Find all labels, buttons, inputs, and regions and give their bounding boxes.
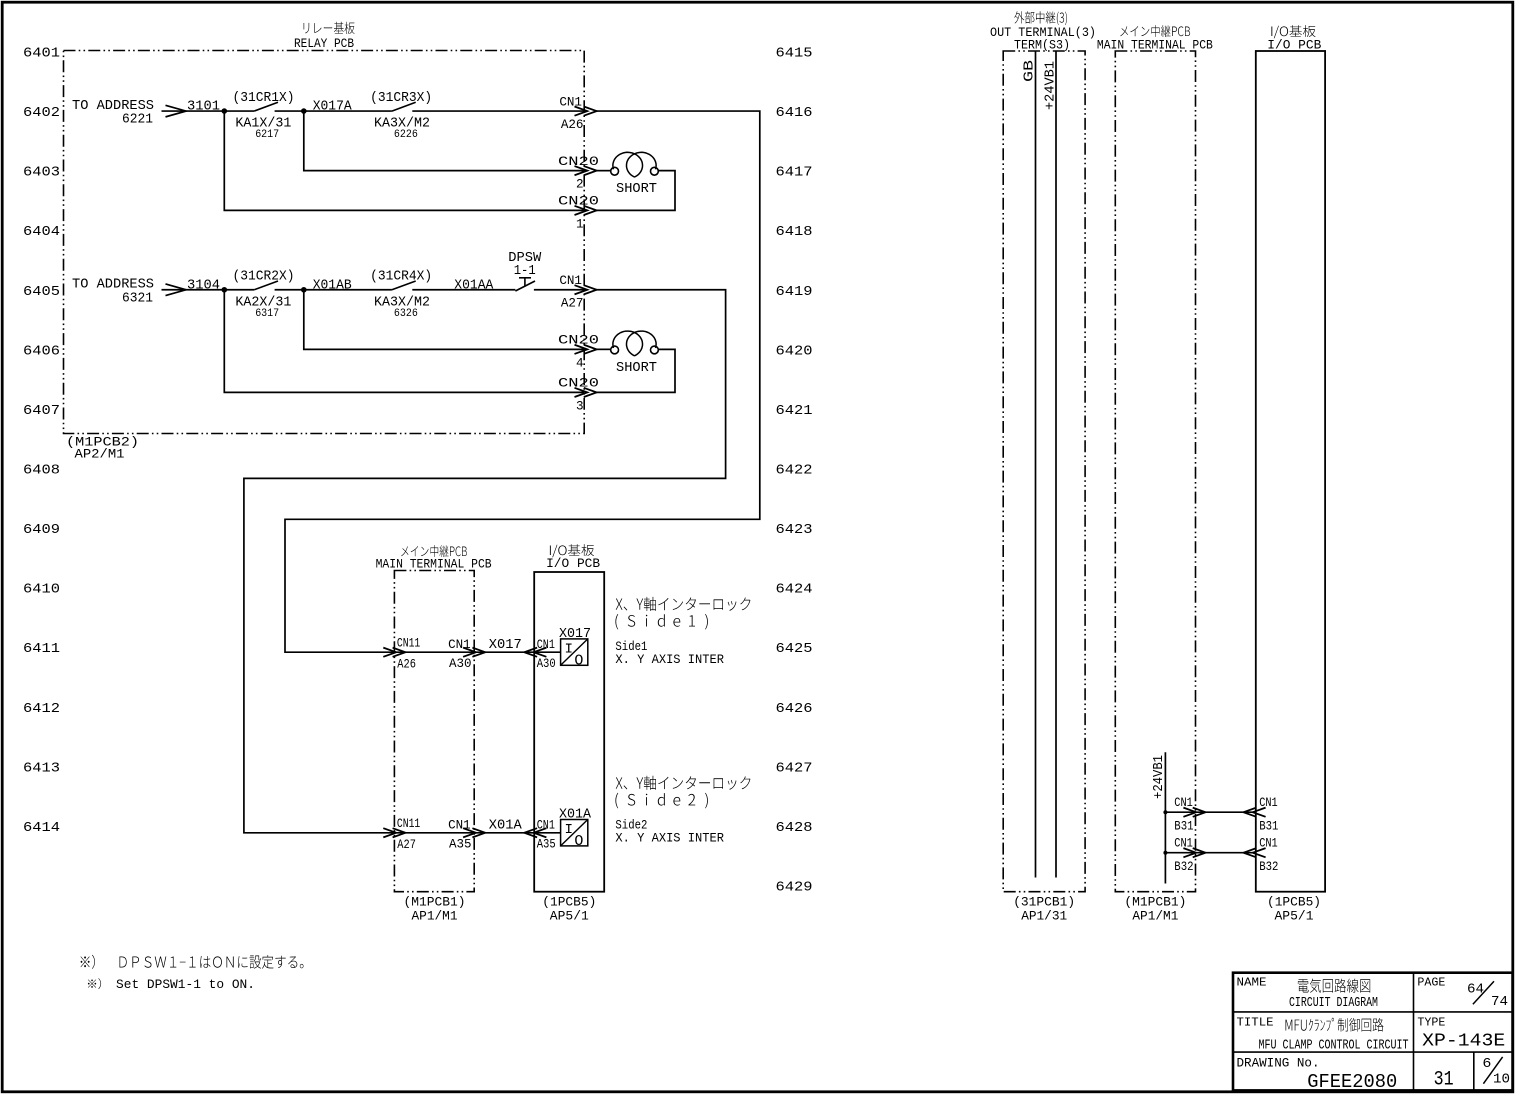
svg-text:6420: 6420: [776, 344, 813, 359]
wire SHORT return loop to CN20-1: [594, 171, 675, 211]
node TO ADDRESS 6221: [72, 99, 154, 128]
svg-text:MFU CLAMP CONTROL CIRCUIT: MFU CLAMP CONTROL CIRCUIT: [1259, 1038, 1409, 1054]
connector pin CN1 A26 (relay pcb): [559, 96, 596, 133]
svg-text:O: O: [574, 653, 583, 670]
svg-text:X017: X017: [489, 638, 522, 653]
wire CN20-2 to SHORT jumper: [596, 170, 611, 172]
svg-text:CN1: CN1: [1259, 796, 1278, 810]
svg-text:Side1: Side1: [615, 640, 647, 654]
svg-text:A30: A30: [449, 657, 472, 671]
svg-text:6408: 6408: [23, 463, 60, 478]
svg-text:6409: 6409: [23, 523, 60, 538]
svg-text:(31PCB1): (31PCB1): [1013, 895, 1075, 910]
svg-text:6416: 6416: [776, 106, 813, 121]
relay contact (31CR1X) KA1X/31 6217: [233, 91, 295, 141]
node X01AA: [454, 279, 494, 294]
wire junction 3104 to contact 31CR2X: [224, 289, 254, 291]
svg-text:6407: 6407: [23, 404, 60, 419]
board refdes (M1PCB2) AP2/M1: [66, 434, 139, 461]
svg-text:I: I: [565, 822, 574, 838]
svg-text:TYPE: TYPE: [1417, 1016, 1445, 1030]
svg-text:6426: 6426: [776, 702, 813, 717]
svg-text:AP1/M1: AP1/M1: [412, 908, 458, 923]
signal flow arrow 3101: [162, 105, 187, 117]
title block PAGE field 64/74: [1417, 976, 1508, 1011]
svg-text:X017A: X017A: [313, 100, 353, 115]
line numbers right column 6415-6429: [776, 47, 813, 896]
svg-text:A30: A30: [537, 657, 556, 671]
svg-text:4: 4: [576, 356, 584, 370]
board label I/O PCB right: [1267, 25, 1321, 52]
svg-text:1: 1: [576, 217, 584, 231]
i/o input block X01A: [559, 807, 592, 850]
svg-text:B31: B31: [1259, 820, 1278, 834]
svg-text:6425: 6425: [776, 642, 813, 657]
wire X017A down to CN20-2: [304, 111, 584, 171]
node X017A: [301, 100, 353, 115]
svg-text:(M1PCB1): (M1PCB1): [1124, 895, 1186, 910]
jumper plug SHORT (CN20 4-3): [611, 331, 659, 376]
i/o input block X017: [559, 627, 591, 670]
svg-text:A35: A35: [449, 838, 472, 852]
line numbers left column 6401-6414: [23, 47, 60, 836]
svg-text:74: 74: [1491, 995, 1508, 1010]
wire SHORT return loop to CN20-3: [594, 349, 675, 392]
wire junction 3101 down to CN20-1: [224, 111, 584, 210]
svg-text:(31CR2X): (31CR2X): [233, 270, 295, 285]
svg-text:(31CR1X): (31CR1X): [233, 91, 295, 106]
board label RELAY PCB: [294, 22, 355, 52]
title block DRAWING No. field GFEE2080: [1237, 1056, 1398, 1093]
svg-text:Set DPSW1-1 to ON.: Set DPSW1-1 to ON.: [116, 978, 255, 992]
title block NAME field: [1237, 976, 1379, 1012]
svg-text:A27: A27: [397, 838, 416, 852]
svg-text:6317: 6317: [255, 308, 279, 320]
wire contact 31CR4X to node X01AA: [412, 289, 515, 291]
wire junction 3101 to contact 31CR1X: [224, 110, 254, 112]
svg-text:6404: 6404: [23, 225, 60, 240]
svg-text:6410: 6410: [23, 583, 60, 598]
annotation X,Y axis interlock Side1: [615, 597, 750, 667]
svg-text:(M1PCB1): (M1PCB1): [404, 895, 466, 910]
svg-text:SHORT: SHORT: [616, 182, 657, 197]
svg-text:O: O: [574, 833, 583, 850]
connector pin CN1 A35 (main terminal pcb): [448, 819, 485, 852]
svg-text:CN11: CN11: [397, 817, 420, 831]
svg-text:6: 6: [1482, 1056, 1491, 1072]
svg-text:6412: 6412: [23, 702, 60, 717]
board label I/O PCB: [546, 544, 600, 571]
svg-text:6411: 6411: [23, 642, 60, 657]
svg-text:DRAWING No.: DRAWING No.: [1237, 1056, 1320, 1070]
node 3104: [187, 279, 220, 294]
jumper plug SHORT (CN20 2-1): [611, 152, 659, 197]
connector pin CN20 3: [558, 377, 599, 414]
board refdes (31PCB1) AP1/31: [1013, 895, 1075, 924]
board OUT TERMINAL(3) (31PCB1 AP1/31) outline: [1003, 51, 1085, 892]
svg-text:CN1: CN1: [1174, 837, 1193, 851]
svg-text:6418: 6418: [776, 225, 813, 240]
relay contact (31CR2X) KA2X/31 6317: [233, 270, 295, 320]
board I/O PCB right (1PCB5 AP5/1) outline: [1256, 51, 1325, 892]
title block sheet 6/10: [1482, 1056, 1510, 1088]
title block TYPE field XP-143E: [1417, 1016, 1505, 1052]
svg-text:6401: 6401: [23, 47, 60, 62]
net GB vertical line: [1023, 51, 1038, 878]
connector pin CN1 A30 (i/o pcb): [524, 638, 555, 671]
svg-text:6428: 6428: [776, 821, 813, 836]
svg-text:B32: B32: [1259, 860, 1278, 874]
board refdes (M1PCB1) AP1/M1 right: [1124, 895, 1186, 924]
svg-text:A35: A35: [537, 838, 556, 852]
svg-text:6217: 6217: [255, 129, 279, 141]
connector pin CN1 A27 (relay pcb): [559, 274, 596, 311]
svg-text:6402: 6402: [23, 106, 60, 121]
svg-text:B32: B32: [1174, 860, 1193, 874]
wire contact to node X017A: [275, 110, 304, 112]
svg-text:(1PCB5): (1PCB5): [1267, 895, 1321, 910]
svg-text:X01A: X01A: [489, 819, 523, 834]
svg-text:A26: A26: [397, 658, 416, 672]
connector pin CN1 A30 (main terminal pcb): [448, 638, 485, 671]
title block sheet number 31: [1434, 1068, 1454, 1091]
svg-text:AP1/M1: AP1/M1: [1132, 908, 1178, 923]
junction dot +24VB1/B32: [1163, 851, 1167, 855]
svg-text:6403: 6403: [23, 166, 60, 181]
board I/O PCB (1PCB5 AP5/1) outline: [534, 572, 604, 892]
svg-text:X. Y AXIS INTER: X. Y AXIS INTER: [615, 832, 724, 846]
wire +24VB1 to pin CN1 B31: [1165, 811, 1255, 813]
board MAIN TERMINAL PCB right (M1PCB1 AP1/M1) outline: [1115, 51, 1195, 892]
wire DPSW to pin CN1 A27: [534, 289, 584, 291]
junction dot 3104: [222, 287, 228, 293]
svg-text:AP5/1: AP5/1: [550, 908, 589, 923]
svg-text:+24VB1: +24VB1: [1151, 755, 1167, 799]
svg-text:MAIN TERMINAL PCB: MAIN TERMINAL PCB: [1097, 39, 1213, 53]
svg-text:6417: 6417: [776, 166, 813, 181]
title block: [1233, 973, 1513, 1091]
svg-text:X01AB: X01AB: [313, 279, 352, 294]
svg-text:6424: 6424: [776, 583, 813, 598]
svg-text:6429: 6429: [776, 880, 813, 895]
svg-text:I/O PCB: I/O PCB: [1267, 39, 1321, 53]
board label MAIN TERMINAL PCB: [376, 545, 492, 571]
svg-text:6406: 6406: [23, 344, 60, 359]
svg-text:GB: GB: [1023, 60, 1038, 82]
svg-text:6321: 6321: [122, 291, 153, 306]
svg-text:CN1: CN1: [1259, 837, 1278, 851]
svg-text:CN11: CN11: [397, 637, 420, 651]
wire X01AB to contact 31CR4X: [304, 289, 392, 291]
svg-text:X01AA: X01AA: [454, 279, 494, 294]
svg-text:XP-143E: XP-143E: [1422, 1030, 1505, 1051]
node TO ADDRESS 6321: [72, 278, 154, 307]
connector pin CN20 2: [558, 155, 599, 192]
wire X017A to contact 31CR3X: [304, 110, 392, 112]
board label OUT TERMINAL(3) TERM(S3): [990, 11, 1096, 52]
connector pin CN1 B32 (main terminal pcb right): [1174, 837, 1205, 875]
connector pin CN20 1: [558, 195, 599, 232]
connector pin CN1 B32 (i/o pcb right): [1244, 837, 1279, 875]
svg-text:RELAY PCB: RELAY PCB: [294, 36, 354, 51]
dip switch DPSW 1-1: [508, 251, 542, 291]
svg-text:X01A: X01A: [559, 807, 592, 822]
board refdes (1PCB5) AP5/1: [542, 895, 596, 924]
svg-text:A26: A26: [561, 118, 584, 132]
svg-text:31: 31: [1434, 1068, 1454, 1091]
svg-text:SHORT: SHORT: [616, 361, 657, 376]
board refdes (1PCB5) AP5/1 right: [1267, 895, 1321, 924]
svg-text:1-1: 1-1: [514, 264, 536, 279]
svg-text:I/O PCB: I/O PCB: [546, 557, 600, 571]
wire arrow to junction 3104: [186, 289, 224, 291]
connector pin CN1 B31 (i/o pcb right): [1244, 796, 1279, 834]
connector pin CN20 4: [558, 334, 599, 371]
board RELAY PCB (M1PCB2 AP2/M1) outline: [64, 51, 585, 434]
connector pin CN1 A35 (i/o pcb): [524, 819, 555, 852]
svg-text:6414: 6414: [23, 821, 60, 836]
svg-text:I: I: [565, 642, 574, 658]
wire contact to node X01AB: [275, 289, 304, 291]
wire arrow to junction 3101: [186, 110, 224, 112]
signal label X017: [489, 638, 522, 653]
svg-text:MAIN TERMINAL PCB: MAIN TERMINAL PCB: [376, 558, 492, 572]
svg-text:TITLE: TITLE: [1237, 1016, 1274, 1030]
svg-text:6427: 6427: [776, 761, 813, 776]
title block TITLE field: [1237, 1016, 1409, 1054]
relay contact (31CR3X) KA3X/M2 6226: [370, 91, 432, 141]
wire contact 31CR3X to pin CN1 A26: [412, 110, 584, 112]
wire net X017 through main terminal pcb to i/o block: [394, 651, 560, 653]
svg-text:CIRCUIT DIAGRAM: CIRCUIT DIAGRAM: [1289, 996, 1378, 1011]
wire net X01A through main terminal pcb to i/o block: [394, 832, 560, 834]
note DPSW1-1 set to ON (japanese): [81, 955, 304, 969]
svg-text:GFEE2080: GFEE2080: [1307, 1071, 1397, 1093]
svg-text:CN1: CN1: [537, 819, 555, 833]
svg-text:CN1: CN1: [537, 638, 555, 652]
svg-text:NAME: NAME: [1237, 976, 1267, 990]
svg-text:6326: 6326: [394, 308, 418, 320]
svg-text:AP5/1: AP5/1: [1275, 908, 1314, 923]
relay contact (31CR4X) KA3X/M2 6326: [370, 270, 432, 320]
board MAIN TERMINAL PCB (M1PCB1 AP1/M1) outline: [394, 571, 474, 892]
svg-text:CN1: CN1: [448, 638, 471, 652]
svg-text:3104: 3104: [187, 279, 220, 294]
svg-text:Side2: Side2: [615, 818, 647, 832]
svg-text:X017: X017: [559, 627, 591, 642]
svg-text:6421: 6421: [776, 404, 813, 419]
svg-text:6221: 6221: [122, 113, 153, 128]
svg-text:3101: 3101: [187, 100, 220, 115]
annotation X,Y axis interlock Side2: [615, 776, 750, 846]
svg-text:(1PCB5): (1PCB5): [542, 895, 596, 910]
svg-text:CN1: CN1: [1174, 796, 1193, 810]
junction dot +24VB1/B31: [1163, 810, 1167, 814]
svg-text:6405: 6405: [23, 285, 60, 300]
note Set DPSW1-1 to ON (english): [88, 978, 255, 992]
connector pin CN1 B31 (main terminal pcb right): [1174, 796, 1205, 834]
signal label X01A: [489, 819, 523, 834]
svg-text:6415: 6415: [776, 47, 813, 62]
svg-text:A27: A27: [561, 297, 584, 311]
svg-text:+24VB1: +24VB1: [1044, 61, 1059, 110]
svg-text:10: 10: [1493, 1072, 1510, 1088]
svg-text:6413: 6413: [23, 761, 60, 776]
svg-text:3: 3: [576, 399, 584, 413]
svg-text:2: 2: [576, 178, 584, 192]
net +24VB1 vertical line (out terminal): [1044, 51, 1059, 878]
svg-text:B31: B31: [1174, 820, 1193, 834]
board refdes (M1PCB1) AP1/M1: [404, 895, 466, 924]
svg-text:(31CR4X): (31CR4X): [370, 270, 432, 285]
svg-text:(31CR3X): (31CR3X): [370, 91, 432, 106]
wire junction 3104 down to CN20-3: [224, 290, 584, 393]
node X01AB: [301, 279, 352, 294]
svg-text:6226: 6226: [394, 129, 418, 141]
wire X01AB down to CN20-4: [304, 290, 584, 350]
node 3101: [187, 100, 220, 115]
svg-text:PAGE: PAGE: [1417, 976, 1445, 990]
wire net A26/X017 route to main terminal pcb: [285, 111, 760, 652]
svg-text:6419: 6419: [776, 285, 813, 300]
svg-text:6423: 6423: [776, 523, 813, 538]
wire net A27/X01A route to main terminal pcb: [244, 290, 726, 833]
svg-text:CN1: CN1: [448, 819, 471, 833]
board label MAIN TERMINAL PCB right: [1097, 25, 1213, 52]
wire CN20-4 to SHORT jumper: [596, 348, 611, 350]
signal flow arrow 3104: [162, 284, 187, 296]
connector pin CN11 A26 (main terminal pcb): [383, 637, 420, 672]
junction dot 3101: [222, 108, 228, 114]
connector pin CN11 A27 (main terminal pcb): [383, 817, 420, 852]
svg-text:6422: 6422: [776, 463, 813, 478]
svg-text:AP2/M1: AP2/M1: [75, 447, 125, 462]
svg-text:X. Y AXIS INTER: X. Y AXIS INTER: [615, 653, 724, 667]
net +24VB1 feed (main terminal pcb right): [1151, 752, 1167, 883]
wire +24VB1 to pin CN1 B32: [1165, 852, 1255, 854]
svg-text:AP1/31: AP1/31: [1021, 908, 1067, 923]
svg-text:TERM(S3): TERM(S3): [1014, 39, 1070, 53]
